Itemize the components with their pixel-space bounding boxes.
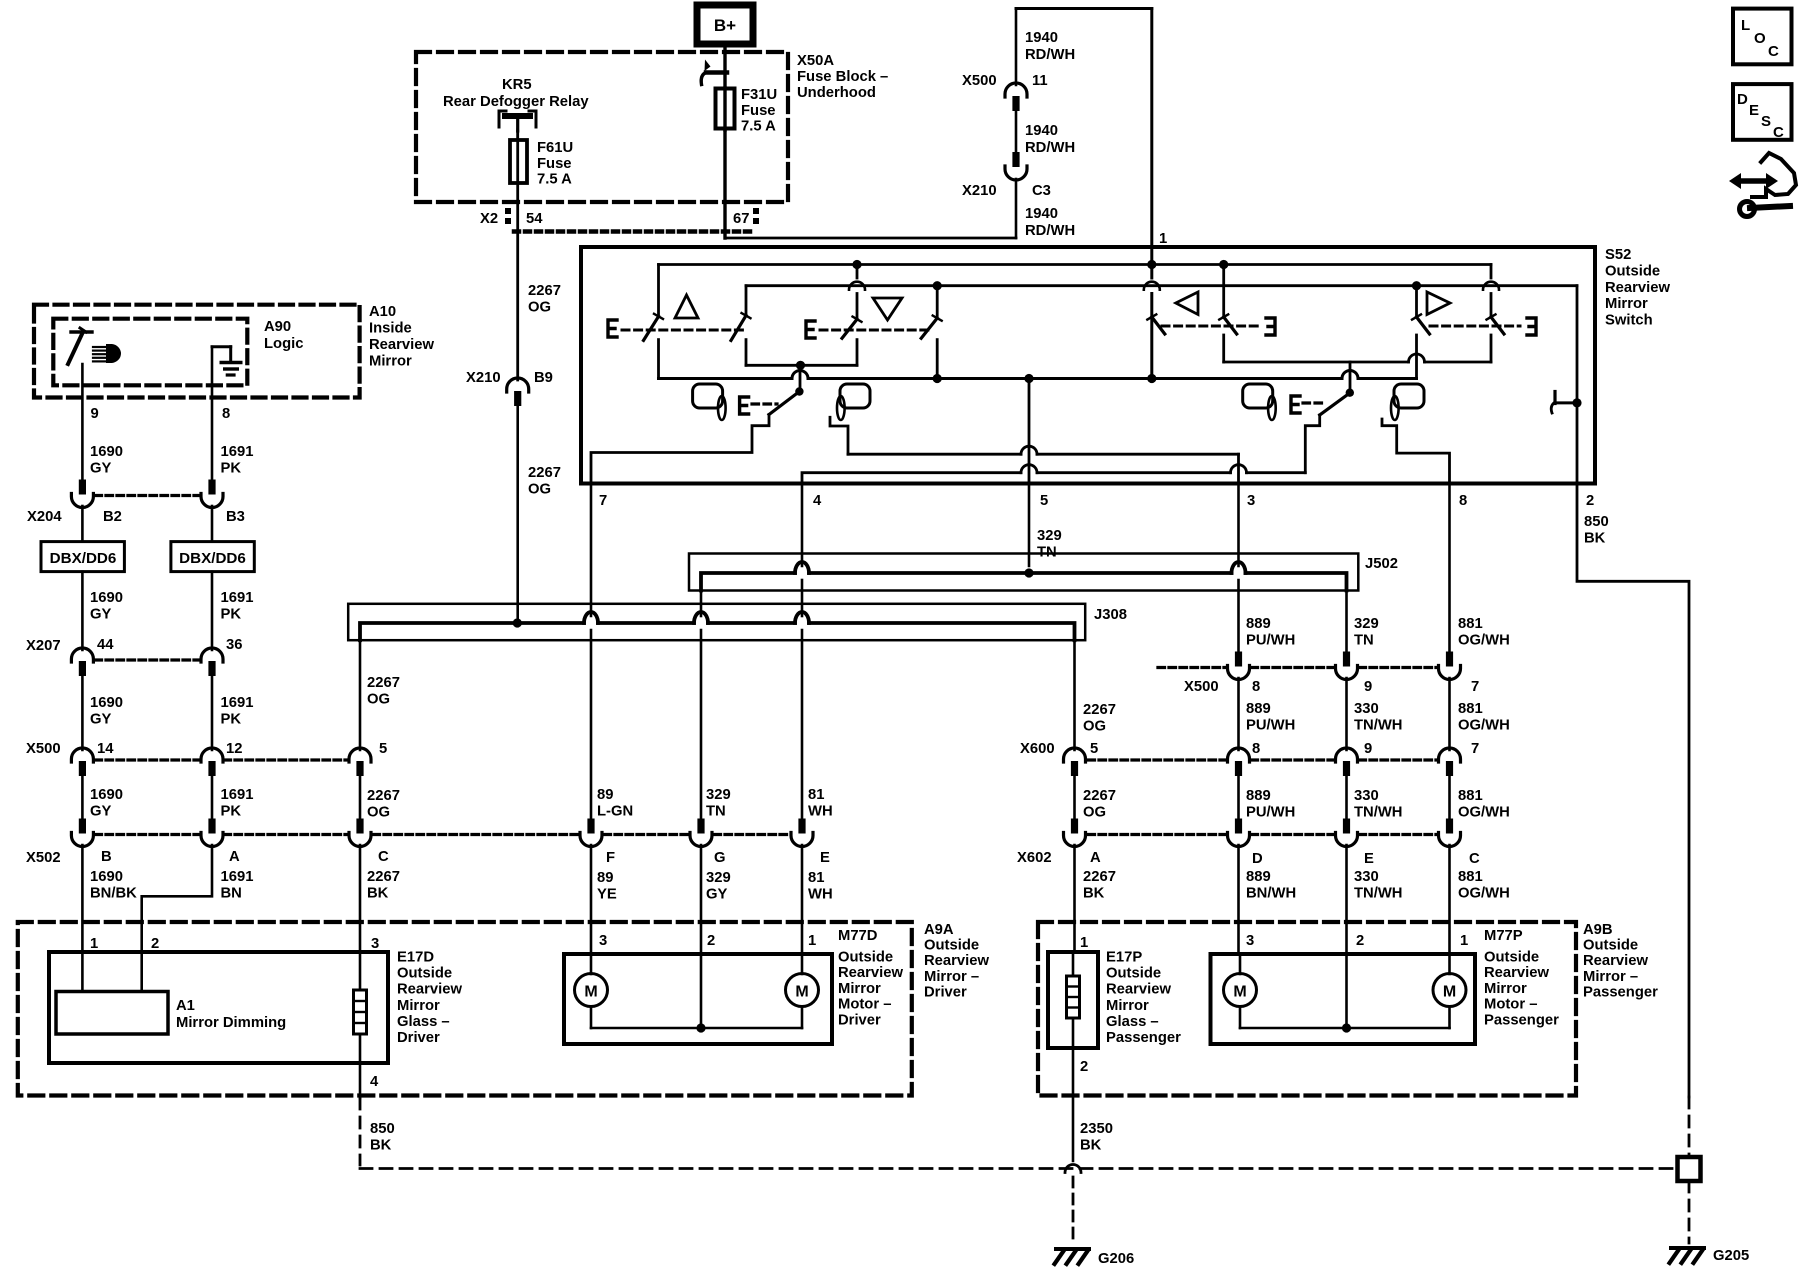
svg-text:Underhood: Underhood [797,85,876,101]
svg-text:C3: C3 [1032,183,1051,199]
svg-text:D: D [1737,91,1748,108]
svg-text:Passenger: Passenger [1106,1030,1181,1046]
svg-text:Rearview: Rearview [1605,280,1670,296]
svg-text:A9B: A9B [1583,922,1613,938]
svg-text:C: C [378,849,389,865]
svg-text:Glass –: Glass – [397,1014,450,1030]
svg-text:1690: 1690 [90,444,123,460]
svg-text:X500: X500 [962,73,997,89]
svg-text:7: 7 [599,493,607,509]
svg-text:A1: A1 [176,998,195,1014]
svg-text:Rearview: Rearview [1106,982,1171,998]
svg-text:Logic: Logic [264,336,303,352]
svg-text:1940: 1940 [1025,206,1058,222]
svg-text:X600: X600 [1020,741,1055,757]
svg-text:9: 9 [91,406,99,422]
svg-text:329: 329 [706,870,731,886]
svg-text:OG: OG [1083,719,1106,735]
svg-text:2267: 2267 [367,869,400,885]
svg-text:881: 881 [1458,616,1483,632]
svg-text:Driver: Driver [397,1030,440,1046]
svg-text:E17D: E17D [397,950,434,966]
svg-text:Fuse: Fuse [741,103,776,119]
svg-text:PK: PK [221,607,242,623]
svg-text:A: A [229,849,240,865]
svg-text:X502: X502 [26,850,61,866]
svg-text:89: 89 [597,787,613,803]
svg-text:M77D: M77D [838,928,878,944]
svg-text:Passenger: Passenger [1583,984,1658,1000]
svg-text:Rearview: Rearview [1583,953,1648,969]
svg-text:BN/BK: BN/BK [90,886,137,902]
svg-text:BK: BK [370,1138,392,1154]
svg-text:S52: S52 [1605,247,1631,263]
svg-text:1690: 1690 [90,787,123,803]
svg-text:2267: 2267 [367,788,400,804]
svg-text:Outside: Outside [397,966,452,982]
svg-text:329: 329 [706,787,731,803]
svg-text:Motor –: Motor – [838,997,891,1013]
svg-text:Mirror: Mirror [397,998,440,1014]
svg-text:Switch: Switch [1605,313,1653,329]
svg-text:X500: X500 [1184,679,1219,695]
svg-text:RD/WH: RD/WH [1025,140,1075,156]
svg-text:F31U: F31U [741,87,777,103]
svg-text:330: 330 [1354,701,1379,717]
svg-text:1691: 1691 [221,695,254,711]
svg-text:PK: PK [221,804,242,820]
svg-text:M: M [584,984,597,1001]
svg-text:1940: 1940 [1025,30,1058,46]
svg-text:8: 8 [222,406,230,422]
svg-text:Driver: Driver [924,984,967,1000]
svg-text:TN: TN [706,804,726,820]
svg-text:C: C [1773,124,1784,141]
svg-text:L: L [1741,17,1750,34]
svg-text:A: A [1090,850,1101,866]
svg-text:Motor –: Motor – [1484,997,1537,1013]
svg-text:7.5 A: 7.5 A [741,119,776,135]
svg-text:Mirror: Mirror [1605,296,1648,312]
svg-text:TN/WH: TN/WH [1354,718,1403,734]
svg-text:2: 2 [1356,933,1364,949]
svg-text:1691: 1691 [221,869,254,885]
svg-text:1940: 1940 [1025,123,1058,139]
svg-text:PU/WH: PU/WH [1246,718,1295,734]
svg-text:X500: X500 [26,741,61,757]
svg-text:OG: OG [1083,805,1106,821]
svg-text:881: 881 [1458,701,1483,717]
svg-text:36: 36 [226,637,242,653]
svg-text:RD/WH: RD/WH [1025,47,1075,63]
svg-text:M77P: M77P [1484,928,1523,944]
svg-text:Outside: Outside [1583,938,1638,954]
svg-text:X207: X207 [26,638,61,654]
svg-text:OG/WH: OG/WH [1458,718,1510,734]
svg-text:1: 1 [1080,935,1088,951]
svg-text:X210: X210 [466,370,501,386]
svg-text:7: 7 [1471,741,1479,757]
svg-text:X50A: X50A [797,53,834,69]
svg-text:E17P: E17P [1106,950,1142,966]
svg-text:PU/WH: PU/WH [1246,805,1295,821]
svg-text:881: 881 [1458,869,1483,885]
svg-text:GY: GY [90,607,112,623]
svg-text:7.5 A: 7.5 A [537,172,572,188]
svg-text:OG: OG [528,300,551,316]
svg-text:Inside: Inside [369,321,412,337]
svg-text:1690: 1690 [90,590,123,606]
svg-text:E: E [1364,851,1374,867]
svg-text:X602: X602 [1017,850,1052,866]
svg-text:Outside: Outside [1605,263,1660,279]
svg-text:B+: B+ [714,16,736,35]
svg-text:3: 3 [599,933,607,949]
svg-text:A10: A10 [369,304,396,320]
svg-text:2: 2 [151,936,159,952]
svg-text:Outside: Outside [1106,966,1161,982]
svg-text:5: 5 [379,741,387,757]
svg-text:8: 8 [1252,741,1260,757]
svg-text:Outside: Outside [924,938,979,954]
svg-text:Outside: Outside [1484,950,1539,966]
svg-text:2: 2 [1080,1059,1088,1075]
svg-text:1691: 1691 [221,787,254,803]
svg-text:2: 2 [1586,493,1594,509]
svg-text:Mirror: Mirror [838,981,881,997]
svg-text:B2: B2 [103,509,122,525]
svg-text:PK: PK [221,461,242,477]
svg-text:850: 850 [370,1121,395,1137]
svg-text:Mirror: Mirror [1484,981,1527,997]
svg-text:67: 67 [733,211,749,227]
svg-text:BK: BK [367,886,389,902]
svg-text:OG/WH: OG/WH [1458,886,1510,902]
svg-text:GY: GY [706,887,728,903]
svg-text:PK: PK [221,712,242,728]
svg-text:889: 889 [1246,701,1271,717]
svg-text:L-GN: L-GN [597,804,633,820]
svg-text:C: C [1469,851,1480,867]
svg-text:Driver: Driver [838,1012,881,1028]
svg-text:B3: B3 [226,509,245,525]
svg-text:TN/WH: TN/WH [1354,886,1403,902]
svg-text:1: 1 [808,933,816,949]
svg-text:9: 9 [1364,679,1372,695]
svg-text:330: 330 [1354,788,1379,804]
svg-text:850: 850 [1584,514,1609,530]
svg-text:14: 14 [97,741,114,757]
svg-text:889: 889 [1246,616,1271,632]
svg-text:8: 8 [1459,493,1467,509]
svg-text:J308: J308 [1094,607,1127,623]
svg-text:329: 329 [1037,528,1062,544]
svg-text:Mirror Dimming: Mirror Dimming [176,1015,286,1031]
svg-text:1691: 1691 [221,590,254,606]
svg-text:54: 54 [526,211,543,227]
svg-text:BK: BK [1584,531,1606,547]
svg-text:WH: WH [808,804,833,820]
svg-text:2267: 2267 [1083,869,1116,885]
svg-text:O: O [1754,30,1766,47]
svg-text:2350: 2350 [1080,1121,1113,1137]
svg-text:G205: G205 [1713,1248,1749,1264]
svg-text:Glass –: Glass – [1106,1014,1159,1030]
svg-text:PU/WH: PU/WH [1246,633,1295,649]
svg-text:BK: BK [1083,886,1105,902]
svg-text:E: E [820,850,830,866]
svg-text:S: S [1761,113,1771,130]
svg-text:2267: 2267 [1083,788,1116,804]
svg-text:B: B [101,849,112,865]
svg-text:X204: X204 [27,509,62,525]
svg-text:F61U: F61U [537,140,573,156]
svg-text:330: 330 [1354,869,1379,885]
svg-text:Mirror –: Mirror – [1583,969,1638,985]
svg-text:X210: X210 [962,183,997,199]
svg-text:Rearview: Rearview [838,965,903,981]
svg-text:889: 889 [1246,869,1271,885]
svg-text:Mirror –: Mirror – [924,969,979,985]
svg-text:11: 11 [1032,73,1048,89]
svg-text:KR5: KR5 [502,77,532,93]
svg-text:B9: B9 [534,370,553,386]
svg-text:1: 1 [1460,933,1468,949]
svg-text:OG: OG [528,482,551,498]
svg-text:C: C [1768,43,1779,60]
svg-text:A90: A90 [264,319,291,335]
svg-text:Passenger: Passenger [1484,1012,1559,1028]
svg-text:889: 889 [1246,788,1271,804]
svg-text:7: 7 [1471,679,1479,695]
svg-text:881: 881 [1458,788,1483,804]
svg-text:DBX/DD6: DBX/DD6 [179,550,246,567]
svg-text:G: G [714,850,726,866]
svg-text:GY: GY [90,461,112,477]
svg-text:Outside: Outside [838,950,893,966]
svg-text:Rear Defogger Relay: Rear Defogger Relay [443,94,589,110]
svg-text:3: 3 [1247,493,1255,509]
svg-text:4: 4 [370,1074,379,1090]
svg-text:Mirror: Mirror [1106,998,1149,1014]
svg-text:WH: WH [808,887,833,903]
svg-text:Fuse: Fuse [537,156,572,172]
svg-text:M: M [1443,984,1456,1001]
svg-text:Fuse Block –: Fuse Block – [797,69,888,85]
svg-text:OG: OG [367,692,390,708]
svg-text:J502: J502 [1365,556,1398,572]
svg-text:3: 3 [371,936,379,952]
svg-text:44: 44 [97,637,114,653]
svg-text:Rearview: Rearview [369,337,434,353]
svg-text:12: 12 [226,741,242,757]
svg-text:OG/WH: OG/WH [1458,633,1510,649]
svg-text:1: 1 [90,936,98,952]
svg-text:1690: 1690 [90,695,123,711]
svg-text:Rearview: Rearview [924,953,989,969]
svg-text:GY: GY [90,712,112,728]
svg-text:F: F [606,850,615,866]
svg-text:A9A: A9A [924,922,954,938]
svg-text:8: 8 [1252,679,1260,695]
svg-text:1690: 1690 [90,869,123,885]
svg-text:E: E [1749,102,1759,119]
svg-text:OG/WH: OG/WH [1458,805,1510,821]
svg-text:DBX/DD6: DBX/DD6 [50,550,117,567]
svg-text:Rearview: Rearview [397,982,462,998]
svg-text:329: 329 [1354,616,1379,632]
svg-text:2267: 2267 [367,675,400,691]
svg-text:3: 3 [1246,933,1254,949]
svg-text:M: M [1233,984,1246,1001]
svg-text:OG: OG [367,805,390,821]
svg-text:RD/WH: RD/WH [1025,223,1075,239]
svg-text:2: 2 [707,933,715,949]
svg-text:BN: BN [221,886,242,902]
svg-text:1691: 1691 [221,444,254,460]
svg-text:X2: X2 [480,211,498,227]
svg-text:GY: GY [90,804,112,820]
svg-text:Rearview: Rearview [1484,965,1549,981]
svg-text:5: 5 [1040,493,1048,509]
svg-text:5: 5 [1090,741,1098,757]
svg-text:BN/WH: BN/WH [1246,886,1296,902]
svg-text:Mirror: Mirror [369,354,412,370]
svg-text:2267: 2267 [528,465,561,481]
svg-text:G206: G206 [1098,1251,1134,1267]
svg-text:81: 81 [808,870,824,886]
svg-text:89: 89 [597,870,613,886]
svg-text:1: 1 [1159,231,1167,247]
svg-text:YE: YE [597,887,617,903]
svg-text:4: 4 [813,493,822,509]
svg-text:2267: 2267 [528,283,561,299]
svg-text:9: 9 [1364,741,1372,757]
svg-text:BK: BK [1080,1138,1102,1154]
svg-text:TN: TN [1354,633,1374,649]
svg-text:D: D [1252,851,1263,867]
svg-text:M: M [795,984,808,1001]
svg-text:TN/WH: TN/WH [1354,805,1403,821]
svg-text:2267: 2267 [1083,702,1116,718]
svg-text:81: 81 [808,787,824,803]
